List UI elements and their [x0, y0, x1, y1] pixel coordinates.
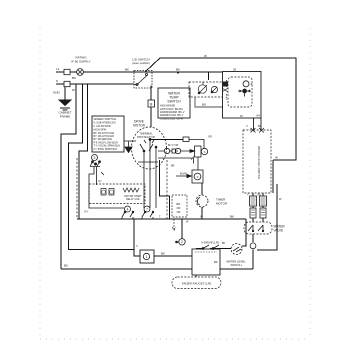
- svg-text:BU: BU: [258, 194, 262, 197]
- svg-text:GND: GND: [53, 91, 61, 95]
- svg-text:BK: BK: [64, 264, 68, 268]
- svg-text:SWITCH: SWITCH: [167, 100, 181, 104]
- svg-text:BK: BK: [222, 242, 226, 245]
- svg-text:RELAY COIL: RELAY COIL: [126, 198, 141, 201]
- svg-text:UY: BTRL SPWH BLN: UY: BTRL SPWH BLN: [94, 148, 118, 151]
- svg-text:BK: BK: [161, 252, 165, 256]
- svg-text:W: W: [204, 54, 207, 58]
- svg-text:S: S: [196, 175, 198, 179]
- svg-text:S: S: [204, 150, 206, 154]
- svg-text:N: N: [56, 79, 58, 83]
- svg-text:(open position): (open position): [132, 61, 150, 65]
- svg-text:WATER LEVEL SWITCH: WATER LEVEL SWITCH: [257, 146, 261, 179]
- svg-text:SPEED SWITCH: SPEED SWITCH: [94, 117, 117, 121]
- svg-text:A: A: [251, 82, 253, 86]
- svg-text:X: X: [200, 215, 202, 219]
- svg-text:LID SWITCH: LID SWITCH: [132, 58, 149, 62]
- svg-text:W: W: [72, 88, 75, 92]
- svg-text:IF 60 SUPPLY: IF 60 SUPPLY: [71, 60, 90, 64]
- svg-text:BK: BK: [214, 260, 218, 264]
- svg-text:FADER FAUCET (LR): FADER FAUCET (LR): [182, 282, 211, 286]
- svg-text:1: 1: [146, 255, 148, 259]
- svg-text:L1: L1: [56, 67, 60, 71]
- svg-text:OR: OR: [208, 136, 212, 139]
- svg-text:MOTOR: MOTOR: [133, 124, 146, 128]
- svg-text:BU V OR: BU V OR: [168, 144, 178, 147]
- svg-text:SWITCH: SWITCH: [230, 263, 241, 267]
- svg-text:GY: GY: [84, 210, 88, 214]
- svg-text:BR: BR: [171, 165, 175, 168]
- svg-text:BK: BK: [72, 76, 76, 80]
- svg-text:BU/W: BU/W: [180, 172, 187, 176]
- svg-text:VALVE: VALVE: [274, 229, 284, 233]
- svg-text:OR: OR: [177, 210, 181, 214]
- svg-text:BK: BK: [125, 68, 129, 72]
- svg-text:64: 64: [257, 114, 261, 118]
- svg-text:PROTECTOR: PROTECTOR: [137, 135, 155, 139]
- svg-text:FRAME: FRAME: [60, 115, 71, 119]
- svg-text:V: V: [246, 124, 248, 128]
- svg-text:4: 4: [127, 207, 129, 211]
- svg-text:2: 2: [181, 240, 183, 244]
- svg-text:BK: BK: [176, 68, 180, 72]
- svg-text:BU: BU: [258, 124, 262, 128]
- svg-text:BU: BU: [202, 103, 206, 107]
- svg-text:3: 3: [94, 156, 96, 160]
- svg-text:BR: BR: [177, 202, 181, 206]
- svg-text:28: 28: [233, 68, 237, 72]
- svg-text:X-DRIVE (LR): X-DRIVE (LR): [201, 241, 219, 245]
- svg-text:F: LID SW PAIR: F: LID SW PAIR: [94, 125, 111, 128]
- svg-text:MOTOR: MOTOR: [216, 202, 228, 206]
- svg-text:COLD/COLD: BK-W: COLD/COLD: BK-W: [160, 116, 184, 120]
- svg-text:7: 7: [146, 207, 148, 211]
- svg-text:BK: BK: [230, 215, 234, 219]
- svg-text:W: W: [275, 156, 278, 160]
- svg-text:OR: OR: [177, 206, 181, 210]
- svg-text:GY: GY: [98, 180, 102, 183]
